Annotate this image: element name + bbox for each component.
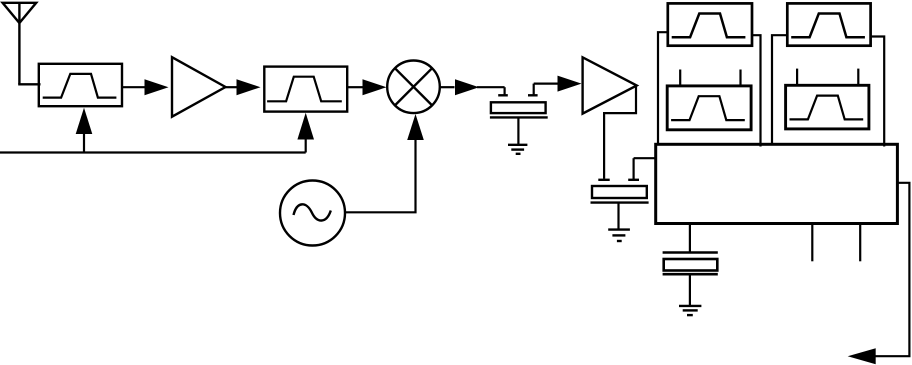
wire A2 apex down to quad detector	[604, 86, 636, 179]
bandpass filter F6 second-row-right	[786, 69, 869, 129]
mixer X1	[387, 61, 440, 114]
bandpass filter F4 top-right	[787, 3, 870, 45]
quadrature resonator CF2	[591, 158, 657, 228]
AGC wire with up arrow into F1	[0, 108, 306, 153]
wire mixer to ceramic filter with arrow	[440, 79, 505, 95]
rail between top filters right	[772, 35, 787, 144]
ground for CF1	[508, 145, 527, 154]
bandpass filter F2	[264, 67, 347, 112]
rail between top filters left	[752, 35, 761, 146]
output wire from block right with arrow	[848, 183, 910, 364]
block bottom stub 1	[811, 225, 813, 262]
local oscillator LO	[280, 181, 345, 246]
amplifier A1	[172, 57, 226, 116]
wire F2 to mixer with arrow	[347, 79, 386, 95]
rail left of filter bank	[658, 32, 668, 144]
crystal Y1 below block	[663, 224, 718, 306]
wire LO to mixer with up arrow	[345, 114, 424, 212]
rail right of filter bank	[871, 37, 885, 147]
block bottom stub 2	[859, 225, 861, 262]
wire A1 to F2 with arrow	[226, 79, 261, 95]
IF demodulator block U1	[656, 144, 898, 223]
amplifier A2	[583, 57, 637, 113]
bandpass filter F1	[39, 64, 122, 106]
antenna	[3, 3, 41, 85]
ground for CF2	[608, 230, 630, 241]
wire F1 to A1 with arrow	[122, 79, 169, 95]
bandpass filter F5 second-row-left	[667, 70, 751, 130]
ground for Y1	[679, 306, 701, 315]
up arrow into F2	[297, 113, 314, 153]
wire CF1 to A2 with arrow	[534, 76, 582, 92]
ceramic filter CF1	[490, 84, 548, 144]
bandpass filter F3 top-left	[668, 3, 752, 45]
